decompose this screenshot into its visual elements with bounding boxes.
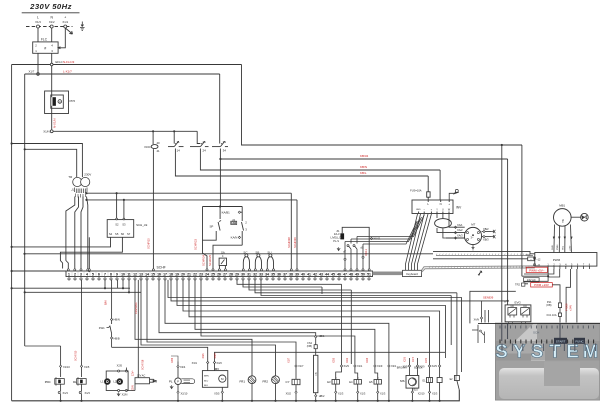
- svg-text:40: 40: [157, 141, 161, 145]
- svg-text:START: START: [556, 340, 566, 344]
- svg-text:X1/24VAC: X1/24VAC: [134, 302, 138, 314]
- wire KBL to fuse: [427, 176, 429, 185]
- svg-text:41: 41: [307, 273, 311, 277]
- label N-FLC/3: [63, 60, 75, 64]
- svg-text:KDC: KDC: [145, 145, 152, 149]
- svg-text:YEL: YEL: [563, 245, 565, 250]
- switch d7: [343, 239, 351, 269]
- pump MS: [397, 356, 425, 398]
- svg-text:6: 6: [98, 273, 100, 277]
- wire L to TR: [24, 148, 77, 177]
- svg-text:PWM +24V: PWM +24V: [534, 283, 549, 287]
- wire KBN to INV: [439, 170, 441, 200]
- svg-text:FU1 10A: FU1 10A: [547, 314, 557, 317]
- svg-text:XA/3: XA/3: [457, 234, 463, 238]
- level probe Z1 ZA-3 LIVELLO: [330, 229, 344, 251]
- svg-text:32: 32: [253, 273, 257, 277]
- fuse FUS 10A: [410, 185, 430, 200]
- svg-text:X1/3: X1/3: [63, 391, 69, 395]
- svg-text:24: 24: [203, 149, 207, 153]
- svg-text:19: 19: [175, 273, 179, 277]
- ribbon strip-keyboard: [373, 272, 403, 276]
- svg-text:X2/9: X2/9: [420, 365, 426, 368]
- svg-text:E5: E5: [369, 380, 373, 384]
- svg-text:HB/B: HB/B: [114, 337, 120, 341]
- svg-text:SENE/9: SENE/9: [483, 296, 494, 300]
- svg-text:SCHF/15: SCHF/15: [147, 238, 151, 249]
- svg-text:XA/2: XA/2: [457, 228, 463, 232]
- svg-text:14: 14: [177, 149, 181, 153]
- wire bundle h3: [345, 219, 420, 242]
- svg-text:GND: GND: [416, 209, 421, 211]
- svg-text:O: O: [59, 100, 61, 104]
- wire S6 out: [60, 237, 122, 268]
- svg-text:28: 28: [229, 273, 233, 277]
- wire SP-d1 top: [203, 205, 243, 207]
- wire PWM pin5: [576, 269, 578, 323]
- wire left rail N: [11, 65, 13, 401]
- svg-text:230V 50Hz: 230V 50Hz: [29, 2, 72, 11]
- board EVG: [505, 301, 531, 322]
- svg-text:FB: FB: [315, 372, 318, 376]
- svg-text:12: 12: [133, 273, 137, 277]
- svg-text:X1/9: X1/9: [377, 364, 383, 368]
- wire TR sec1: [66, 197, 75, 269]
- svg-text:+24V: +24V: [569, 305, 573, 311]
- svg-text:Keyboard: Keyboard: [406, 272, 418, 276]
- wires strip pins 29-33 to right: [237, 280, 457, 372]
- inverter INV box: [412, 200, 462, 214]
- wire KB/N: [200, 149, 440, 171]
- lamps L1 L2 box: [101, 364, 135, 397]
- component E7: [450, 372, 460, 390]
- wire rail1 b288: [11, 280, 131, 289]
- wire fr2 up: [141, 280, 276, 378]
- svg-text:X2/1: X2/1: [346, 357, 349, 363]
- wire cy up: [147, 280, 296, 364]
- svg-text:X2/4: X2/4: [180, 365, 186, 369]
- svg-text:GND: GND: [552, 245, 554, 250]
- label KA/N: [231, 236, 241, 240]
- svg-text:46: 46: [337, 273, 341, 277]
- svg-text:HB/2: HB/2: [319, 394, 325, 398]
- svg-text:X2/N: X2/N: [122, 392, 128, 396]
- wire 34 to SP net: [219, 159, 221, 207]
- wire pin47 stub: [344, 242, 346, 269]
- svg-text:X2/5: X2/5: [333, 357, 336, 363]
- svg-text:X3/1: X3/1: [192, 361, 198, 365]
- label SENF/24b red: [201, 254, 205, 266]
- svg-text:3: 3: [51, 49, 53, 53]
- lamp SU: [267, 251, 273, 269]
- svg-text:SCHF/25: SCHF/25: [208, 254, 212, 266]
- fan: [571, 213, 588, 221]
- PWM minus box: [528, 257, 535, 261]
- wire PF5 to X1/N: [51, 106, 53, 130]
- lamp SB: [255, 251, 261, 269]
- wire rail2 corner: [25, 345, 61, 347]
- svg-text:26: 26: [217, 273, 221, 277]
- svg-text:X1/3: X1/3: [338, 392, 344, 396]
- svg-text:BLU: BLU: [414, 389, 419, 391]
- wire fr1 up: [135, 280, 252, 378]
- svg-text:SCHF/38: SCHF/38: [287, 237, 291, 248]
- svg-text:XB/3: XB/3: [483, 238, 489, 242]
- svg-text:X1/3: X1/3: [35, 20, 41, 24]
- svg-text:–: –: [423, 208, 425, 211]
- choke ellipse: [435, 219, 452, 228]
- svg-text:X2/5: X2/5: [117, 364, 123, 368]
- wires MB1 to PWM: [552, 225, 573, 253]
- svg-text:22: 22: [193, 273, 197, 277]
- wire bundle h4: [363, 221, 417, 244]
- heater FB: [307, 334, 325, 402]
- sensor FR1: [240, 375, 256, 402]
- svg-text:W: W: [448, 208, 451, 211]
- wire band 10: [201, 280, 355, 364]
- svg-text:14: 14: [145, 273, 149, 277]
- svg-text:12V AC: 12V AC: [137, 374, 146, 377]
- wire FLC pin3 down: [51, 53, 53, 63]
- svg-text:4: 4: [222, 255, 224, 258]
- svg-text:42: 42: [313, 273, 317, 277]
- svg-text:51: 51: [367, 273, 371, 277]
- svg-text:3: 3: [245, 228, 247, 232]
- wire KB/L: [175, 149, 428, 177]
- svg-text:49: 49: [355, 273, 359, 277]
- label KB/71 red: [364, 249, 368, 256]
- svg-text:L: L: [37, 16, 39, 20]
- wire X1/N bus: [53, 130, 197, 132]
- svg-text:PL: PL: [169, 379, 173, 383]
- svg-text:~12: ~12: [536, 258, 541, 261]
- svg-text:BRN: BRN: [204, 375, 209, 377]
- component E6: [422, 357, 437, 398]
- wire band 11: [165, 280, 389, 364]
- label PNK red vertical: [564, 303, 572, 311]
- svg-text:X5/11: X5/11: [364, 249, 368, 256]
- svg-text:50: 50: [361, 273, 365, 277]
- svg-text:SCHF/23: SCHF/23: [194, 238, 198, 250]
- terminal X1/N: [43, 130, 53, 134]
- keyboard box: [403, 270, 422, 276]
- wire N-to-FLC: [51, 28, 53, 42]
- wire PWM pin2: [524, 269, 554, 274]
- wire MS blu rail: [411, 398, 430, 402]
- svg-text:X1/1: X1/1: [62, 20, 68, 24]
- svg-text:7: 7: [104, 273, 106, 277]
- heater E2: [346, 357, 366, 402]
- svg-text:18: 18: [169, 273, 173, 277]
- label SENF/25 red: [208, 254, 212, 266]
- label KB/34: [360, 154, 369, 158]
- svg-text:INV: INV: [456, 205, 462, 209]
- svg-text:MB1: MB1: [559, 203, 565, 207]
- terminal X1/1 (PE): [62, 16, 68, 29]
- label 24VAC red: [134, 280, 138, 378]
- wire X1/N to contact 11: [173, 130, 175, 143]
- wire EFLC N bus: [12, 60, 242, 66]
- wires XA left: [472, 301, 489, 343]
- svg-text:FR1: FR1: [240, 379, 246, 383]
- svg-text:GND: GND: [526, 254, 531, 256]
- svg-text:MT: MT: [471, 222, 475, 226]
- component TRM: [126, 359, 157, 390]
- svg-text:PDC: PDC: [45, 380, 51, 384]
- svg-text:PF5: PF5: [70, 99, 76, 103]
- wire to PWM 12: [433, 258, 536, 260]
- wire N drop right: [501, 145, 503, 323]
- wire to pin39: [296, 200, 298, 269]
- svg-text:40: 40: [301, 273, 305, 277]
- relay coil KDC: [145, 141, 161, 153]
- motor MB1: [554, 203, 572, 226]
- svg-text:44: 44: [325, 273, 329, 277]
- svg-text:TK: TK: [561, 219, 565, 223]
- svg-text:SCHF/16: SCHF/16: [142, 359, 145, 370]
- svg-text:21: 21: [203, 140, 207, 144]
- svg-text:11: 11: [127, 273, 131, 277]
- svg-text:12V--: 12V--: [132, 370, 135, 376]
- svg-text:3: 3: [80, 273, 82, 277]
- ribbon keyboard-PWM: [422, 266, 535, 272]
- component CY: [286, 357, 304, 402]
- PWM bottom pins 1-8: [547, 263, 590, 269]
- component DL: [73, 280, 90, 402]
- svg-text:~11: ~11: [536, 264, 541, 267]
- svg-text:L1: L1: [101, 380, 104, 384]
- wire band 8: [189, 280, 430, 364]
- supply bus (dashed): [26, 26, 73, 28]
- wire bundle h1: [357, 215, 424, 237]
- wire FW1 to MV: [112, 347, 208, 361]
- svg-text:N-FLC/3: N-FLC/3: [63, 60, 75, 64]
- svg-text:23: 23: [199, 273, 203, 277]
- wire TR sec2: [75, 197, 79, 269]
- wire d wires: [388, 364, 397, 402]
- wire pin5 stub: [88, 237, 90, 272]
- svg-text:5: 5: [92, 273, 94, 277]
- lamp SC: [243, 251, 249, 269]
- switch SP: [203, 207, 222, 241]
- svg-text:31: 31: [247, 273, 251, 277]
- motor MV: [192, 353, 228, 402]
- svg-text:X3/3: X3/3: [216, 361, 222, 365]
- wire SP drop pin24: [203, 240, 208, 268]
- svg-text:+: +: [448, 202, 450, 206]
- svg-text:HB/1: HB/1: [319, 334, 325, 338]
- svg-text:SCHF: SCHF: [157, 266, 166, 270]
- board PWM: [526, 253, 597, 268]
- label B/N red: [104, 300, 108, 305]
- svg-text:X2/9: X2/9: [432, 364, 438, 368]
- svg-text:34: 34: [265, 273, 269, 277]
- svg-text:TRM: TRM: [152, 379, 158, 383]
- label PWM +5V red: [526, 267, 547, 272]
- svg-text:24V AC: 24V AC: [527, 278, 536, 282]
- svg-text:8: 8: [110, 273, 112, 277]
- motor MT wires: [440, 223, 465, 239]
- svg-text:+: +: [64, 16, 66, 20]
- wire PWM pin1 loop: [522, 269, 549, 281]
- svg-text:PNK/9: PNK/9: [564, 303, 568, 311]
- svg-text:17: 17: [163, 273, 167, 277]
- wire TR out S2: [85, 192, 291, 194]
- svg-text:X2/10: X2/10: [181, 392, 188, 396]
- wire to PWM GND: [433, 251, 535, 253]
- svg-text:27: 27: [223, 273, 227, 277]
- svg-text:EFLC: EFLC: [56, 60, 63, 64]
- svg-text:35: 35: [271, 273, 275, 277]
- svg-text:10: 10: [121, 273, 125, 277]
- svg-text:25: 25: [211, 273, 215, 277]
- svg-text:SCHF/24: SCHF/24: [201, 254, 205, 266]
- svg-text:XA/N: XA/N: [474, 319, 480, 322]
- switch SA: [219, 250, 226, 268]
- wire d1 drop: [213, 245, 242, 268]
- svg-text:X1/3: X1/3: [85, 391, 91, 395]
- svg-text:P: P: [177, 380, 179, 384]
- label L-X1/7: [63, 70, 72, 74]
- svg-text:+24V: +24V: [569, 245, 571, 251]
- svg-text:X3/9: X3/9: [171, 357, 174, 363]
- svg-text:DR: DR: [511, 306, 515, 308]
- svg-text:48: 48: [349, 273, 353, 277]
- wire band 9: [195, 280, 375, 364]
- label KB/L: [360, 171, 367, 175]
- label KB/N: [360, 165, 367, 169]
- svg-text:BLK: BLK: [204, 385, 209, 387]
- svg-text:KB/N: KB/N: [360, 165, 367, 169]
- svg-text:X2/9: X2/9: [425, 357, 428, 363]
- svg-text:SCHF/10: SCHF/10: [75, 350, 78, 361]
- wire S2 up: [116, 193, 118, 220]
- svg-text:MS: MS: [400, 379, 404, 383]
- fuse FS1: [546, 290, 561, 313]
- wire SENE: [171, 280, 509, 302]
- contact KDC 11-14: [168, 140, 184, 153]
- wire E6b: [437, 352, 445, 402]
- svg-text:XB/2: XB/2: [483, 227, 489, 231]
- wire S3 up: [123, 200, 125, 220]
- svg-text:16: 16: [157, 273, 161, 277]
- wire left rail L: [24, 74, 26, 346]
- svg-text:KA/B1: KA/B1: [222, 210, 231, 214]
- sensor FR2: [263, 376, 280, 402]
- svg-text:XA/1: XA/1: [457, 223, 463, 227]
- svg-text:E4: E4: [349, 380, 353, 384]
- wire X1/1 to FLC pin4: [58, 28, 65, 49]
- svg-text:S7: S7: [127, 232, 131, 236]
- wire rail2 b292: [24, 280, 141, 294]
- svg-text:47: 47: [343, 273, 347, 277]
- wire senf down: [504, 301, 506, 303]
- wire L X1/7 bus: [25, 69, 220, 74]
- svg-text:d5: d5: [361, 246, 364, 250]
- motor MT: [464, 222, 481, 250]
- label SENF/24 red: [194, 238, 198, 250]
- svg-text:X2/10: X2/10: [418, 391, 425, 395]
- wire hb1 line: [159, 280, 316, 336]
- transformer TR: [68, 173, 91, 198]
- wire to pin38: [290, 193, 292, 268]
- label TR2: [515, 283, 525, 287]
- svg-text:S4: S4: [109, 232, 113, 236]
- label N-X1/N red vertical: [52, 119, 56, 128]
- wire N drop to PWM: [521, 145, 523, 276]
- svg-text:30: 30: [241, 273, 245, 277]
- svg-text:FW1: FW1: [99, 326, 105, 330]
- svg-text:43: 43: [319, 273, 323, 277]
- svg-text:FUS=10A: FUS=10A: [410, 188, 422, 192]
- wire U to XA/2: [443, 214, 446, 239]
- svg-text:X1/2: X1/2: [49, 20, 55, 24]
- switch FW1: [99, 280, 120, 347]
- svg-text:X1/7: X1/7: [298, 364, 304, 368]
- svg-text:2: 2: [35, 44, 37, 48]
- svg-text:FUNC: FUNC: [575, 340, 584, 344]
- svg-text:11: 11: [177, 140, 180, 144]
- label KB/11: [370, 237, 381, 241]
- label X5/8 red: [293, 237, 297, 248]
- svg-text:KA/N: KA/N: [231, 236, 238, 240]
- wire X1/N to coil: [152, 130, 154, 144]
- svg-text:X2/9: X2/9: [403, 365, 409, 368]
- svg-text:SP: SP: [210, 224, 214, 228]
- svg-text:X2/3: X2/3: [432, 392, 438, 396]
- wire L-to-FLC: [37, 28, 39, 42]
- wire PL top: [171, 356, 178, 362]
- watermark 4SYSTEM logo: [478, 323, 600, 400]
- label KA/B1: [222, 210, 231, 214]
- svg-text:#: #: [44, 46, 46, 50]
- svg-text:S6: S6: [121, 232, 125, 236]
- wire rail2 long: [23, 253, 433, 255]
- svg-text:X3/3: X3/3: [214, 353, 217, 359]
- filter FLC: [33, 37, 58, 53]
- wire MV right up: [215, 352, 446, 361]
- svg-text:ZA-3: ZA-3: [334, 232, 340, 236]
- svg-text:X1/N: X1/N: [43, 130, 49, 134]
- svg-text:24: 24: [205, 273, 209, 277]
- svg-text:4: 4: [51, 44, 53, 48]
- component PL: [169, 357, 195, 402]
- bottom rail: [12, 390, 460, 401]
- fuse FU1 10A: [547, 313, 562, 323]
- svg-text:X2/7: X2/7: [412, 356, 415, 362]
- svg-text:230V: 230V: [84, 173, 91, 177]
- svg-text:SCH: SCH: [533, 331, 539, 335]
- component PDC: [45, 346, 71, 402]
- wire probe to pin51: [342, 227, 369, 268]
- svg-text:X1/7: X1/7: [288, 357, 291, 363]
- svg-text:E2: E2: [450, 378, 454, 381]
- wire N to PF5: [51, 66, 53, 97]
- svg-text:PWM: PWM: [553, 258, 561, 262]
- wire Y to XA/1: [437, 214, 440, 233]
- svg-text:37: 37: [283, 273, 287, 277]
- label X5/7 red: [287, 237, 291, 248]
- label 230V 50Hz supply: [22, 2, 80, 13]
- svg-text:X1/10: X1/10: [63, 365, 70, 369]
- svg-text:N: N: [50, 16, 53, 20]
- svg-text:PL-S: PL-S: [333, 239, 339, 243]
- svg-text:X2/5: X2/5: [404, 356, 407, 362]
- svg-text:38: 38: [289, 273, 293, 277]
- svg-text:(OB): (OB): [546, 304, 551, 307]
- wire EFLC drop: [242, 65, 523, 147]
- INV bottom pins: [416, 208, 451, 213]
